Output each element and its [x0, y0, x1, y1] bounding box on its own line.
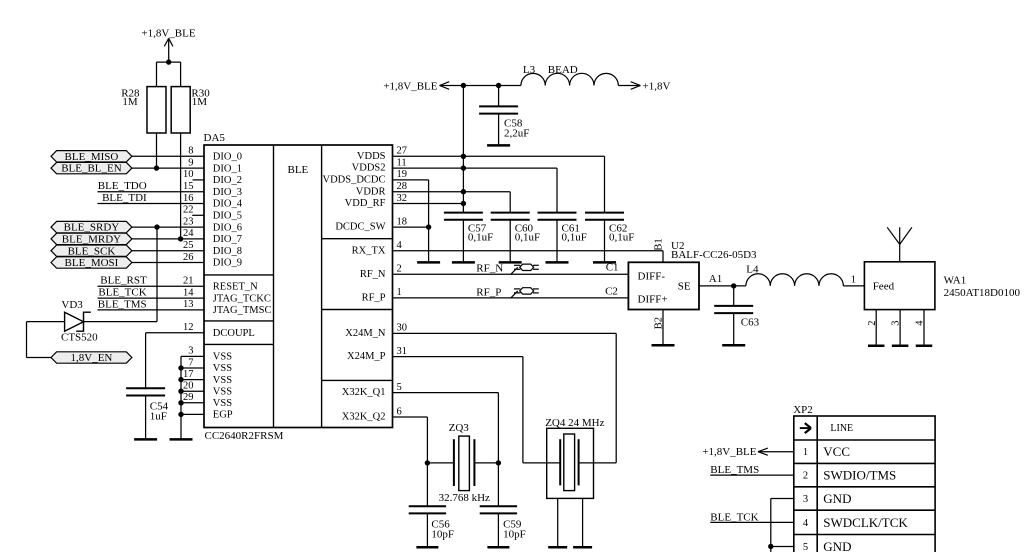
- svg-text:24: 24: [183, 228, 194, 239]
- svg-text:4: 4: [397, 240, 403, 251]
- svg-text:SWDCLK/TCK: SWDCLK/TCK: [823, 515, 908, 530]
- svg-text:BLE_TDO: BLE_TDO: [98, 180, 147, 192]
- wire BLE_TCK: [98, 297, 205, 299]
- svg-text:VCC: VCC: [823, 444, 850, 459]
- svg-text:RF_N: RF_N: [476, 263, 503, 275]
- ground under C58: [487, 144, 510, 147]
- svg-text:GND: GND: [823, 491, 851, 506]
- wire +1,8V rail: [440, 85, 521, 87]
- XP2 pin functions: [823, 444, 908, 554]
- rail right arrow: [631, 82, 641, 90]
- IC left pin numbers: [183, 146, 194, 404]
- wire WA1 pin 4 to ground: [923, 310, 925, 345]
- IC designator DA5: [204, 132, 226, 144]
- svg-text:DIO_9: DIO_9: [213, 258, 242, 269]
- wire BLE_BL_EN: [132, 167, 204, 169]
- ground under C59: [487, 546, 509, 549]
- wire BLE_TDI: [98, 203, 205, 205]
- wire C63 top: [733, 286, 735, 306]
- wire C54 to ground: [145, 396, 147, 440]
- pin stub DIO_2 (10): [193, 179, 205, 181]
- svg-text:RF_P: RF_P: [476, 286, 501, 298]
- junction dot above R28/R30: [166, 59, 171, 64]
- svg-text:5: 5: [397, 382, 402, 393]
- port flag BLE_MOSI: [51, 257, 132, 269]
- resistor R30: [171, 87, 210, 133]
- svg-text:A1: A1: [709, 273, 722, 285]
- svg-text:17: 17: [183, 369, 194, 380]
- svg-text:19: 19: [397, 169, 408, 180]
- svg-text:BLE_MISO: BLE_MISO: [65, 151, 119, 163]
- inductor L4: [746, 264, 843, 286]
- svg-text:25: 25: [183, 240, 194, 251]
- svg-text:VDDS_DCDC: VDDS_DCDC: [322, 175, 385, 186]
- junction dot ZQ3 right: [496, 460, 501, 465]
- svg-text:BLE_SCK: BLE_SCK: [68, 245, 116, 257]
- junction dot DCDC_SW: [426, 224, 431, 229]
- wire L4 to antenna: [843, 285, 864, 287]
- svg-text:+1,8V_BLE: +1,8V_BLE: [141, 28, 195, 40]
- svg-text:VSS: VSS: [213, 352, 232, 363]
- wire RF_N (2): [393, 273, 629, 275]
- svg-text:28: 28: [397, 181, 408, 192]
- jumper on RF_N: [511, 264, 539, 274]
- junction dot SE/C63: [731, 283, 736, 288]
- svg-text:DIO_5: DIO_5: [213, 211, 242, 222]
- svg-text:14: 14: [183, 287, 194, 298]
- svg-text:DIFF+: DIFF+: [638, 293, 668, 305]
- resistor R28: [121, 87, 166, 133]
- net label BLE_TCK (XP2): [710, 511, 758, 523]
- wire BLE_MOSI: [132, 262, 204, 264]
- svg-text:VSS: VSS: [213, 363, 232, 374]
- svg-text:5: 5: [803, 542, 808, 552]
- svg-text:32: 32: [397, 193, 408, 204]
- wire ZQ3 left: [427, 462, 454, 464]
- capacitor C62: [585, 213, 634, 244]
- pin label C1: [606, 262, 619, 274]
- svg-text:DCOUPL: DCOUPL: [213, 328, 255, 339]
- ground under C62: [593, 261, 616, 264]
- wire XP2 SWDCLK: [710, 521, 794, 523]
- ground under B2: [652, 344, 675, 347]
- svg-text:+1,8V_BLE: +1,8V_BLE: [702, 446, 756, 458]
- net label BLE_TMS: [98, 298, 147, 310]
- junction dot R28/BLE_BL_EN: [154, 165, 159, 170]
- port flag BLE_MISO: [51, 151, 132, 163]
- wire VSS ground bus: [180, 356, 182, 439]
- svg-text:C63: C63: [741, 317, 760, 329]
- ground under C60: [499, 261, 522, 264]
- svg-text:23: 23: [183, 216, 194, 227]
- pin label 4 (rotated): [915, 320, 926, 326]
- capacitor C60: [491, 213, 540, 244]
- svg-text:29: 29: [183, 392, 194, 403]
- ground under VSS bus: [170, 438, 193, 441]
- connector XP2 table: [794, 416, 935, 557]
- svg-text:3: 3: [188, 346, 193, 357]
- pin number 1 (antenna feed): [851, 275, 856, 286]
- diode VD3 (CTS520): [61, 299, 98, 344]
- port flag BLE_SCK: [51, 245, 132, 257]
- antenna symbol: [887, 227, 912, 261]
- svg-text:RF_N: RF_N: [360, 269, 386, 280]
- svg-text:SWDIO/TMS: SWDIO/TMS: [823, 468, 896, 483]
- wire C59 top: [497, 463, 499, 506]
- ground under WA1 pin 3: [892, 344, 909, 347]
- svg-text:21: 21: [183, 276, 194, 287]
- svg-text:BLE_TMS: BLE_TMS: [98, 298, 147, 310]
- svg-text:6: 6: [397, 406, 402, 417]
- svg-text:1uF: 1uF: [150, 410, 167, 422]
- pin label 3 (rotated): [891, 321, 902, 326]
- XP2 pin numbers: [803, 447, 809, 553]
- wire BLE_TMS: [98, 309, 205, 311]
- net label +1,8V_BLE (rail): [383, 80, 437, 92]
- pin stub DIO_5 (22): [192, 214, 204, 216]
- wire X24M_P (31) to ZQ4: [393, 357, 561, 463]
- jumper on RF_P: [511, 288, 539, 298]
- svg-text:X24M_P: X24M_P: [347, 351, 386, 362]
- wire C63 to ground: [733, 313, 735, 344]
- pin label A1: [709, 273, 722, 285]
- svg-text:16: 16: [183, 193, 194, 204]
- IC right pin numbers: [397, 146, 408, 418]
- svg-text:C2: C2: [605, 286, 618, 298]
- wire XP2 GND5: [771, 545, 794, 547]
- pin label B2 (rotated): [654, 317, 665, 329]
- wire BLE_RST: [98, 285, 205, 287]
- wire BLE_MRDY: [132, 238, 204, 240]
- antenna WA1 body: [864, 262, 935, 310]
- svg-text:22: 22: [183, 205, 194, 216]
- wire L3 to +1,8V: [618, 85, 640, 87]
- svg-text:7: 7: [188, 357, 193, 368]
- wire R28/R30 top tie: [157, 62, 181, 87]
- svg-text:0,1uF: 0,1uF: [562, 231, 587, 243]
- svg-text:X24M_N: X24M_N: [345, 328, 386, 339]
- svg-text:RESET_N: RESET_N: [213, 282, 258, 293]
- svg-text:CTS520: CTS520: [61, 332, 98, 344]
- svg-text:JTAG_TCKC: JTAG_TCKC: [213, 293, 271, 304]
- svg-text:20: 20: [183, 381, 194, 392]
- wire DCDC_SW (18): [393, 226, 429, 228]
- junction dot ZQ3 left: [425, 460, 430, 465]
- net label +1,8V: [643, 80, 671, 92]
- net label RF_P: [476, 286, 501, 298]
- inductor L3 BEAD: [521, 64, 618, 85]
- ground under C54: [134, 438, 157, 441]
- svg-text:BALF-CC26-05D3: BALF-CC26-05D3: [671, 249, 757, 261]
- wire ZQ3 right: [474, 462, 498, 464]
- wire XP2 GND3: [771, 498, 794, 500]
- wire BLE_MISO: [132, 155, 204, 157]
- capacitor C56: [409, 506, 454, 541]
- svg-text:B1: B1: [654, 238, 665, 250]
- wire VDD_RF (32) to bus: [393, 203, 464, 205]
- svg-text:11: 11: [397, 157, 407, 168]
- wire +1,8V_BLE bus vertical: [462, 86, 464, 213]
- svg-text:ZQ3: ZQ3: [449, 422, 470, 434]
- pin label C2: [605, 286, 618, 298]
- svg-text:+1,8V: +1,8V: [643, 80, 671, 92]
- svg-text:BLE_MRDY: BLE_MRDY: [62, 234, 121, 246]
- svg-text:VSS: VSS: [213, 375, 232, 386]
- rail left arrow: [440, 82, 450, 90]
- net label BLE_TDO: [98, 180, 147, 192]
- balun U2 BALF-CC26-05D3 body: [628, 262, 699, 309]
- ground under WA1 pin 2: [868, 344, 885, 347]
- wire VDDR (28) to C60: [393, 192, 511, 213]
- ground under ZQ4 right: [573, 546, 592, 549]
- port flag 1,8V_EN: [51, 352, 132, 364]
- svg-text:DIO_4: DIO_4: [213, 199, 243, 210]
- power arrow up: [164, 38, 173, 62]
- svg-text:DIO_8: DIO_8: [213, 246, 242, 257]
- svg-text:31: 31: [397, 346, 408, 357]
- svg-text:X32K_Q2: X32K_Q2: [342, 412, 386, 423]
- wire X32K_Q2 (6) to ZQ3: [393, 417, 428, 463]
- svg-text:26: 26: [183, 252, 194, 263]
- XP2 VCC arrow: [758, 448, 768, 455]
- power flag +1,8V_BLE (top): [141, 28, 195, 40]
- svg-text:DIFF-: DIFF-: [638, 270, 666, 282]
- svg-text:LINE: LINE: [830, 423, 853, 434]
- svg-text:XP2: XP2: [793, 404, 813, 416]
- wire BLE_SRDY: [132, 226, 204, 228]
- wire XP2 ground bus: [770, 499, 772, 553]
- connector XP2 designator: [793, 404, 813, 416]
- IC value CC2640R2FRSM: [205, 430, 284, 442]
- svg-text:DIO_2: DIO_2: [213, 175, 242, 186]
- junction dot R30/BLE_MRDY: [178, 236, 183, 241]
- svg-text:VDDS2: VDDS2: [352, 163, 386, 174]
- svg-text:13: 13: [183, 299, 194, 310]
- wire C58 to ground: [498, 114, 500, 145]
- svg-text:GND: GND: [823, 539, 851, 552]
- svg-text:DIO_0: DIO_0: [213, 152, 242, 163]
- svg-text:0,1uF: 0,1uF: [515, 231, 540, 243]
- junction dots on bus: [461, 154, 466, 207]
- svg-text:3: 3: [803, 494, 808, 505]
- svg-text:Feed: Feed: [873, 280, 895, 292]
- svg-text:DIO_3: DIO_3: [213, 187, 242, 198]
- capacitor C61: [538, 213, 587, 244]
- wire WA1 pin 3 to ground: [899, 310, 901, 345]
- ground under C61: [546, 261, 569, 264]
- ground under ZQ4 left: [548, 546, 567, 549]
- wire B2 to ground: [662, 310, 664, 345]
- wire VDDS2 (11) to C61: [393, 168, 558, 213]
- net label BLE_TDI: [102, 192, 147, 204]
- svg-text:WA1: WA1: [944, 274, 967, 286]
- svg-text:2: 2: [803, 471, 808, 482]
- XP2 header label LINE: [830, 423, 853, 434]
- svg-text:4: 4: [803, 518, 809, 529]
- svg-text:0,1uF: 0,1uF: [468, 231, 493, 243]
- svg-text:VDDS: VDDS: [357, 151, 386, 162]
- svg-text:BLE_SRDY: BLE_SRDY: [64, 222, 120, 234]
- svg-text:EGP: EGP: [213, 410, 233, 421]
- junction dot VD3/BLE_SRDY: [154, 224, 159, 229]
- svg-text:32.768 kHz: 32.768 kHz: [439, 492, 490, 504]
- ground under C57: [452, 261, 475, 264]
- svg-text:C1: C1: [606, 262, 619, 274]
- svg-text:1M: 1M: [122, 96, 137, 108]
- svg-text:8: 8: [188, 146, 193, 157]
- svg-text:10: 10: [183, 169, 194, 180]
- svg-text:0,1uF: 0,1uF: [609, 231, 634, 243]
- junction dot rail/C58: [496, 83, 501, 88]
- svg-text:BLE_TDI: BLE_TDI: [102, 192, 147, 204]
- capacitor C59: [480, 506, 526, 541]
- svg-text:VSS: VSS: [213, 398, 232, 409]
- wire DCOUPL pin 12: [146, 333, 204, 389]
- wire C60 to ground: [509, 220, 511, 262]
- svg-text:DIO_6: DIO_6: [213, 222, 242, 233]
- svg-text:BLE_TCK: BLE_TCK: [710, 511, 758, 523]
- svg-text:L3: L3: [523, 64, 536, 76]
- wire WA1 pin 2 to ground: [875, 310, 877, 345]
- svg-text:2,2uF: 2,2uF: [504, 127, 529, 139]
- wire X24M_N (30) to ZQ4: [393, 333, 617, 463]
- wire VDDS (27) to C62: [393, 156, 605, 212]
- svg-text:1,8V_EN: 1,8V_EN: [71, 352, 113, 364]
- wire BLE_TDO: [98, 191, 205, 193]
- WA1 designator: [944, 274, 1021, 299]
- XP2 header arrow: [800, 423, 811, 433]
- wire C57 to ground: [462, 220, 464, 262]
- svg-text:1: 1: [851, 275, 856, 286]
- wire C58 top: [498, 86, 500, 107]
- svg-text:2450AT18D0100: 2450AT18D0100: [944, 287, 1021, 299]
- wire XP2 SWDIO: [710, 474, 794, 476]
- IC DA5 CC2640R2FRSM body: [204, 145, 393, 428]
- svg-text:DIO_1: DIO_1: [213, 163, 242, 174]
- svg-text:12: 12: [183, 322, 194, 333]
- wire RF_P (1): [393, 297, 629, 299]
- svg-text:VDDR: VDDR: [356, 186, 386, 197]
- svg-text:BLE_RST: BLE_RST: [100, 275, 147, 287]
- svg-text:VD3: VD3: [61, 299, 83, 311]
- wire C59 to ground: [497, 513, 499, 546]
- svg-text:BLE_TCK: BLE_TCK: [98, 287, 146, 299]
- net label BLE_TCK: [98, 287, 146, 299]
- junction dot rail/bus: [461, 83, 466, 88]
- ground under C63: [722, 344, 745, 347]
- port flag BLE_BL_EN: [51, 162, 132, 174]
- svg-text:BLE_BL_EN: BLE_BL_EN: [61, 163, 122, 175]
- wire RX_TX (4) to balun B1: [393, 251, 664, 263]
- wire C61 to ground: [556, 220, 558, 262]
- IC left pin names: [213, 152, 272, 421]
- net label BLE_RST: [100, 275, 147, 287]
- svg-text:1: 1: [803, 447, 808, 458]
- wire C62 to ground: [604, 220, 606, 262]
- wire BLE_SCK: [132, 250, 204, 252]
- capacitor C54: [126, 388, 169, 422]
- wire C56 to ground: [426, 513, 428, 546]
- crystal ZQ4 24 MHz: [545, 417, 604, 498]
- IC right pin names: [322, 151, 385, 423]
- crystal ZQ3: [439, 422, 490, 504]
- pin label B1 (rotated): [654, 238, 665, 250]
- wire R30 to BLE_MRDY row: [180, 133, 182, 239]
- wire SE output: [699, 285, 746, 287]
- port flag BLE_MRDY: [51, 233, 132, 245]
- wire VD3 cathode to BLE_SRDY: [84, 227, 157, 322]
- svg-text:15: 15: [183, 181, 194, 192]
- port flag BLE_SRDY: [51, 221, 132, 233]
- svg-text:JTAG_TMSC: JTAG_TMSC: [213, 305, 272, 316]
- svg-text:2: 2: [397, 264, 402, 275]
- wire ZQ4 case pin to ground (left): [557, 498, 559, 546]
- wire C56 top: [426, 463, 428, 506]
- svg-text:DCDC_SW: DCDC_SW: [335, 222, 385, 233]
- svg-text:RF_P: RF_P: [362, 293, 386, 304]
- svg-text:ZQ4 24 MHz: ZQ4 24 MHz: [545, 417, 604, 429]
- svg-text:10pF: 10pF: [431, 529, 454, 541]
- svg-text:L4: L4: [746, 264, 759, 276]
- ground under DCDC net: [417, 261, 440, 264]
- svg-text:X32K_Q1: X32K_Q1: [342, 387, 386, 398]
- capacitor C57: [444, 213, 493, 244]
- capacitor C58: [479, 106, 529, 139]
- svg-text:10pF: 10pF: [503, 529, 526, 541]
- net label +1,8V_BLE (XP2): [702, 446, 756, 458]
- wire VDDS_DCDC (19): [393, 180, 429, 262]
- svg-text:18: 18: [397, 216, 408, 227]
- svg-text:VSS: VSS: [213, 386, 232, 397]
- svg-text:30: 30: [397, 323, 408, 334]
- svg-text:VDD_RF: VDD_RF: [345, 198, 386, 209]
- svg-text:BLE_TMS: BLE_TMS: [710, 464, 759, 476]
- wire ZQ4 case pin to ground (right): [582, 498, 584, 546]
- pin label 2 (rotated): [867, 321, 878, 326]
- wire X32K_Q1 (5) to ZQ3: [393, 393, 499, 463]
- svg-text:9: 9: [188, 157, 193, 168]
- wire R28 to BLE_BL_EN row: [156, 133, 158, 168]
- U2 designator: [671, 240, 757, 261]
- svg-text:CC2640R2FRSM: CC2640R2FRSM: [205, 430, 284, 442]
- ground under WA1 pin 4: [916, 344, 933, 347]
- net label RF_N: [476, 263, 503, 275]
- svg-text:1: 1: [397, 287, 402, 298]
- net label BLE_TMS (XP2): [710, 464, 759, 476]
- capacitor C63: [714, 306, 759, 329]
- svg-text:SE: SE: [678, 281, 691, 293]
- svg-text:BLE_MOSI: BLE_MOSI: [65, 257, 119, 269]
- junction dots VSS bus: [178, 365, 183, 417]
- wire XP2 VCC: [758, 451, 794, 453]
- svg-text:BEAD: BEAD: [548, 64, 578, 76]
- svg-text:+1,8V_BLE: +1,8V_BLE: [383, 80, 437, 92]
- svg-text:DA5: DA5: [204, 132, 226, 144]
- svg-text:BLE: BLE: [288, 164, 309, 176]
- svg-text:DIO_7: DIO_7: [213, 234, 242, 245]
- ground under C56: [416, 546, 438, 549]
- svg-text:27: 27: [397, 146, 408, 157]
- IC function label BLE: [288, 164, 309, 176]
- wires VSS/EGP pin stubs: [181, 356, 204, 414]
- junction dot XP2 ground: [768, 544, 773, 549]
- wire 1,8V_EN to VD3 anode: [27, 322, 66, 358]
- svg-text:RX_TX: RX_TX: [352, 245, 386, 256]
- svg-text:1M: 1M: [192, 96, 208, 108]
